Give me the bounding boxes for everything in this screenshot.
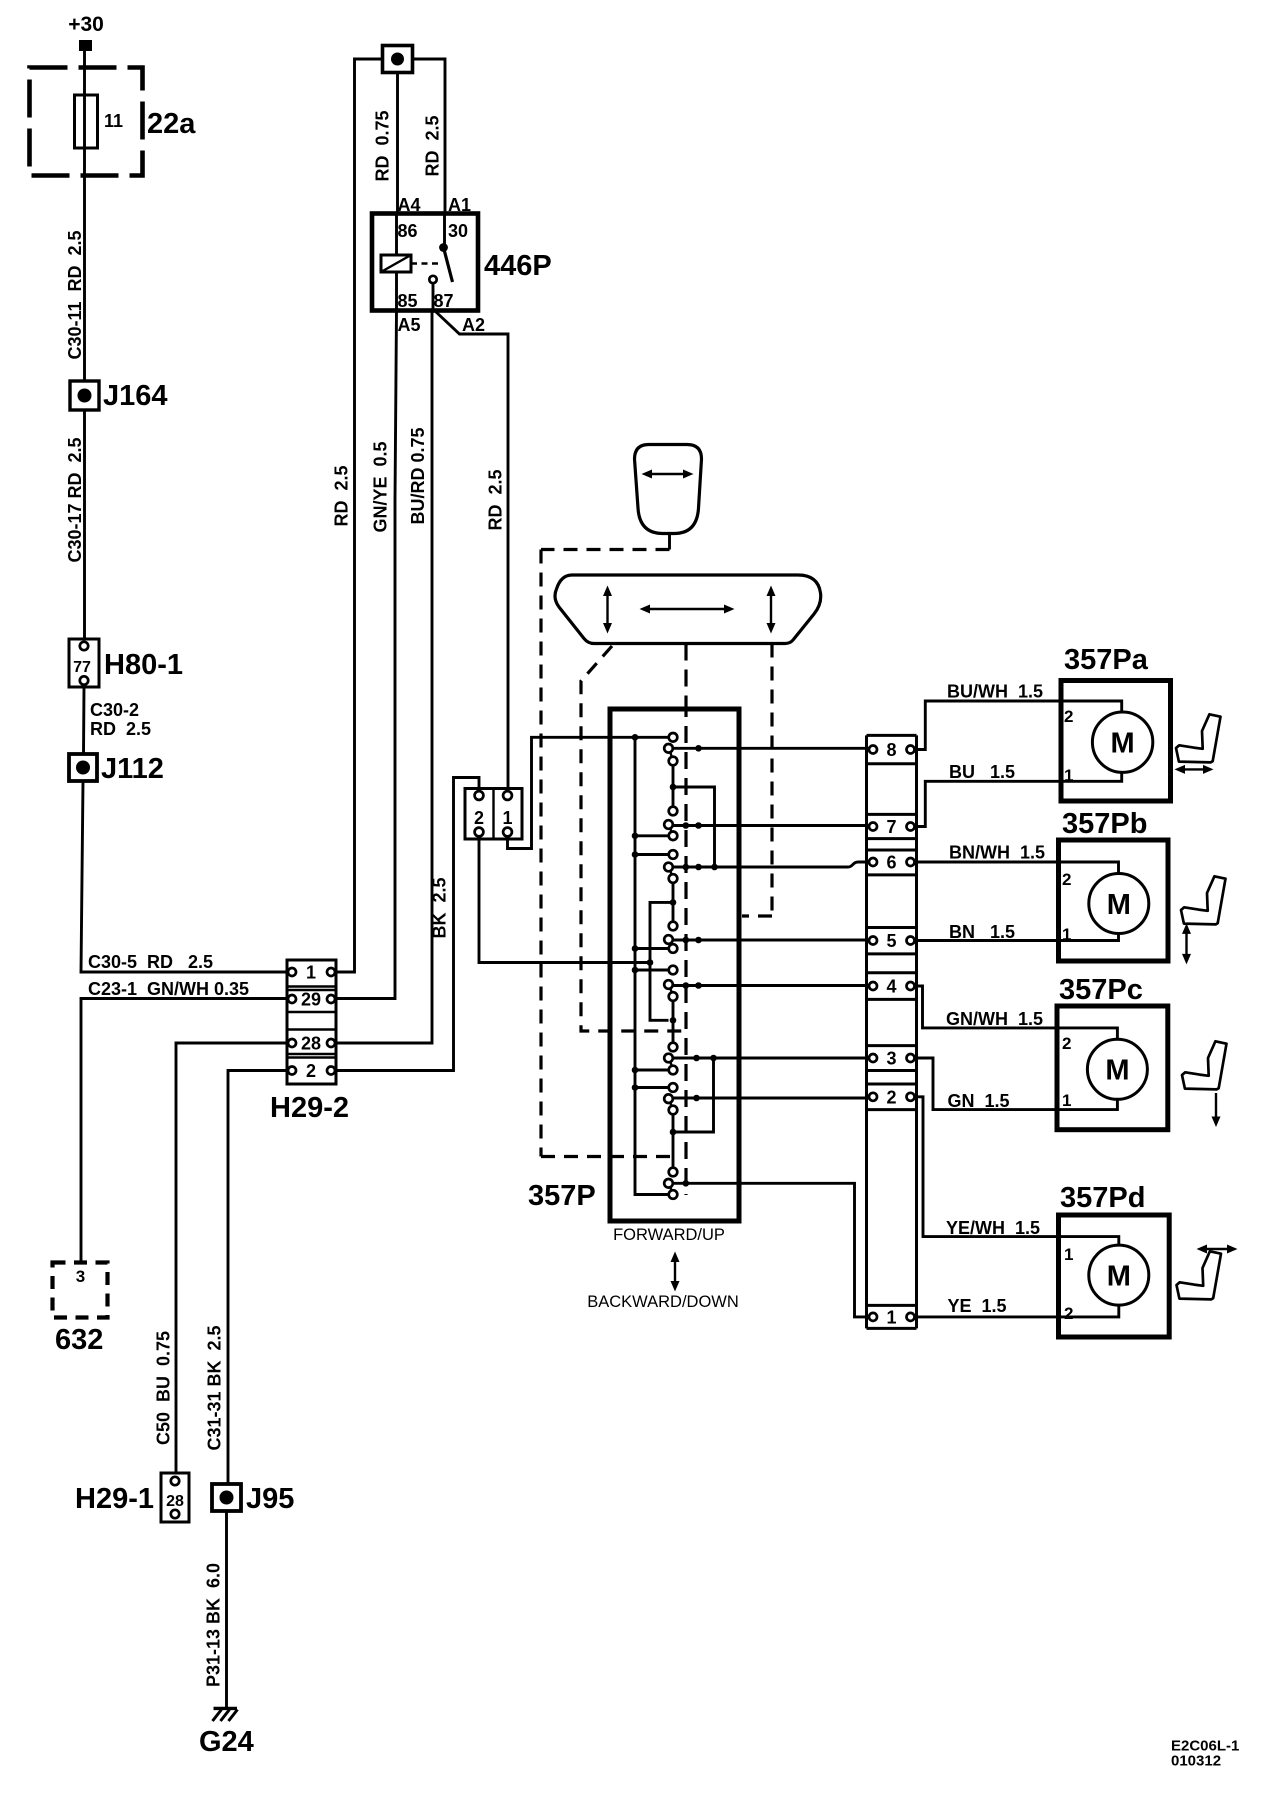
wire J164 to H80-1 — [83, 410, 86, 639]
svg-text:M: M — [1105, 1055, 1129, 1087]
relay coil — [395, 214, 398, 311]
svg-text:BN/WH 1.5: BN/WH 1.5 — [949, 843, 1045, 863]
wire row 2 to connector pin 2 — [673, 1097, 869, 1100]
svg-text:RD 2.5: RD 2.5 — [423, 115, 443, 176]
svg-text:RD 2.5: RD 2.5 — [332, 465, 352, 526]
svg-text:BU/WH 1.5: BU/WH 1.5 — [947, 682, 1043, 702]
svg-text:J164: J164 — [103, 380, 168, 412]
svg-text:RD 0.75: RD 0.75 — [373, 110, 393, 181]
connector H29-1 — [161, 1473, 189, 1522]
svg-text:2: 2 — [474, 808, 484, 828]
seat Pd horizontal double arrow — [1203, 1248, 1231, 1250]
wire pin 1 to motor 357Pd pin 2 — [915, 1305, 1119, 1317]
connector J95 — [212, 1484, 241, 1511]
svg-text:357P: 357P — [528, 1180, 596, 1212]
connector strip cell lines — [867, 735, 917, 1328]
svg-text:1: 1 — [886, 1307, 896, 1327]
dashed outline top from knob — [541, 548, 670, 551]
svg-text:5: 5 — [886, 931, 896, 951]
forward/backward double arrow — [674, 1258, 676, 1285]
motor 357Pc body — [1057, 1006, 1168, 1130]
svg-text:GN/WH 1.5: GN/WH 1.5 — [946, 1009, 1043, 1029]
connector pin 1 — [869, 1313, 877, 1321]
svg-text:C31-31 BK 2.5: C31-31 BK 2.5 — [205, 1325, 225, 1450]
svg-text:BU/RD 0.75: BU/RD 0.75 — [408, 427, 428, 524]
lever right up-down arrow — [770, 592, 772, 627]
svg-text:H29-2: H29-2 — [270, 1092, 349, 1124]
svg-text:GN 1.5: GN 1.5 — [948, 1091, 1010, 1111]
svg-text:4: 4 — [886, 977, 896, 997]
wire junction box left then down to H29-2 pin 1 right — [336, 59, 383, 972]
switch knob shape — [635, 445, 702, 534]
svg-text:C30-17 RD 2.5: C30-17 RD 2.5 — [65, 437, 85, 562]
connector pin 4 — [869, 982, 877, 990]
svg-text:7: 7 — [886, 817, 896, 837]
connector J164 — [70, 381, 99, 410]
svg-text:8: 8 — [886, 740, 896, 760]
svg-text:FORWARD/UP: FORWARD/UP — [613, 1226, 725, 1244]
svg-text:BU 1.5: BU 1.5 — [949, 762, 1015, 782]
svg-text:C30-11 RD 2.5: C30-11 RD 2.5 — [65, 230, 85, 359]
seat icon for 357Pc — [1182, 1041, 1227, 1089]
svg-text:446P: 446P — [484, 250, 552, 282]
connector H29-2 body — [287, 960, 336, 1084]
wire relay pin 87 down (BU/RD) to H29-2 pin 28 right — [336, 283, 433, 1043]
connector strip rails — [867, 735, 917, 1328]
rail stubs to fixed contacts — [635, 836, 669, 1088]
svg-text:M: M — [1107, 889, 1131, 921]
wire J95 down to ground — [225, 1511, 228, 1708]
svg-text:357Pb: 357Pb — [1062, 808, 1147, 840]
fuse 11 element — [75, 95, 98, 148]
svg-text:1: 1 — [1062, 925, 1071, 944]
svg-text:+30: +30 — [68, 13, 104, 36]
svg-text:1: 1 — [306, 963, 316, 983]
contact group B (row 7) — [669, 807, 678, 816]
svg-text:1: 1 — [502, 808, 512, 828]
wire H80-1 to J112 — [82, 687, 85, 754]
lever left up-down arrow — [606, 592, 608, 627]
svg-text:2: 2 — [886, 1087, 896, 1107]
wire pin 8 to motor 357Pa pin 2 — [915, 701, 1122, 750]
jumper G3 to H1 and row 3 link — [673, 1058, 714, 1168]
svg-text:A2: A2 — [462, 315, 485, 335]
connector pin 2 — [869, 1093, 877, 1101]
svg-text:BACKWARD/DOWN: BACKWARD/DOWN — [587, 1293, 739, 1311]
svg-text:1: 1 — [1062, 1091, 1071, 1110]
svg-text:P31-13 BK 6.0: P31-13 BK 6.0 — [204, 1563, 224, 1687]
wire junction box right then down to relay pin 30 — [413, 59, 446, 214]
svg-text:357Pd: 357Pd — [1060, 1182, 1145, 1214]
lever left-right arrow — [646, 608, 728, 610]
svg-text:2: 2 — [1064, 1304, 1073, 1323]
relay contact arm — [444, 248, 453, 283]
relay 446P body — [372, 214, 478, 311]
dashed outline bottom edge — [541, 1155, 672, 1158]
seat Pb vertical double arrow — [1185, 930, 1187, 958]
jumper A3 to B1 and to row6 — [673, 765, 715, 867]
ground G24 symbol — [214, 1707, 238, 1710]
wire J112 down to corner then right to H29-2 pin 1 — [81, 781, 287, 972]
wire row 4 to connector pin 4 — [673, 984, 869, 987]
connector 2|1 body — [465, 789, 522, 840]
seat icon for 357Pb — [1181, 876, 1226, 924]
wire pin 5 to motor 357Pb pin 1 — [915, 934, 1119, 941]
motor 357Pd body — [1059, 1215, 1170, 1337]
wire from +30 into fuse box 22a and down through fuse — [83, 51, 86, 381]
connector H80-1 — [69, 639, 99, 687]
svg-text:M: M — [1111, 728, 1135, 760]
jumper C3 to D1 — [672, 883, 675, 922]
contact group C (row 6) — [669, 850, 678, 859]
wire 2|1 pin 2 bottom to 357P lower-left feed — [479, 836, 650, 963]
H29-2 pin 1 circles — [288, 968, 296, 976]
seat icon for 357Pd — [1177, 1251, 1222, 1299]
svg-text:J95: J95 — [246, 1483, 294, 1515]
contact group G (row 2) — [669, 1083, 678, 1092]
dashed link lever bottom-left diagonal — [581, 646, 686, 1031]
relay contact: pin 30 fixed point — [443, 214, 446, 245]
seat Pa horizontal double arrow — [1181, 768, 1207, 770]
pin circle H80-1 top — [80, 642, 88, 650]
wire H29-2 pin 2 left to C31-31 wire down to J95 — [228, 1071, 287, 1485]
contact group H (row 1) — [669, 1168, 678, 1177]
contact group D (row 5) — [669, 922, 678, 931]
svg-text:A1: A1 — [448, 195, 471, 215]
connector pin 6 — [869, 858, 877, 866]
connector 2|1 circles — [475, 791, 484, 800]
wire pin 3 to motor 357Pc pin 1 — [915, 1058, 1118, 1110]
connector 632 (dashed box) — [53, 1263, 108, 1318]
wire pin 7 to motor 357Pa pin 1 — [915, 772, 1122, 826]
seat icon for 357Pa — [1176, 714, 1221, 762]
wire relay pin 87/A2 diagonal to RD 2.5 drop to connector pin 1 — [435, 311, 508, 791]
svg-text:357Pc: 357Pc — [1059, 974, 1143, 1006]
dashed link lever to switch (center) — [684, 644, 687, 701]
switch 357P body — [610, 709, 739, 1221]
wire row 1 down to connector pin 1 — [673, 1183, 869, 1317]
knob left-right arrow — [648, 473, 687, 475]
svg-text:357Pa: 357Pa — [1064, 644, 1149, 676]
svg-text:29: 29 — [301, 990, 321, 1010]
svg-text:1: 1 — [1064, 1245, 1073, 1264]
svg-text:87: 87 — [434, 291, 454, 311]
svg-text:28: 28 — [166, 1493, 184, 1510]
wire pin 4 to motor 357Pc pin 2 — [915, 986, 1118, 1039]
wire row 7 to connector pin 7 — [673, 824, 869, 827]
svg-text:BK 2.5: BK 2.5 — [430, 877, 450, 938]
svg-text:85: 85 — [398, 291, 418, 311]
fuse box 22a (dashed housing) — [30, 68, 143, 176]
svg-text:C50 BU 0.75: C50 BU 0.75 — [154, 1331, 174, 1445]
svg-text:J112: J112 — [101, 753, 164, 785]
svg-text:30: 30 — [448, 221, 468, 241]
svg-text:28: 28 — [301, 1034, 321, 1054]
wire 2|1 pin 1 bottom to 357P top-left feed — [508, 737, 671, 848]
svg-text:C30-2: C30-2 — [90, 700, 139, 720]
wire H29-2 pin 28 left to C50 wire down to H29-1 — [176, 1043, 287, 1473]
svg-text:77: 77 — [73, 659, 91, 676]
dashed link lever right side down and into box — [742, 644, 772, 917]
knob stem — [668, 534, 671, 550]
wire relay pin 85/A5 down (GN/YE) to H29-2 pin 29 right — [336, 311, 397, 999]
relay coil to contact dashed link — [411, 262, 438, 264]
H29-2 pin 2 circles — [288, 1067, 296, 1075]
wire 2|1 pin 2 up-left then down (BK 2.5) to H29-2 pin 2 right — [336, 778, 479, 1071]
svg-text:C30-5 RD 2.5: C30-5 RD 2.5 — [88, 952, 213, 972]
svg-text:6: 6 — [886, 853, 896, 873]
contact group A (row 8) — [669, 733, 678, 742]
motor 357Pb body — [1059, 840, 1169, 961]
dashed outline left edge — [539, 550, 542, 1157]
H29-2 cell separators — [287, 987, 336, 1058]
connector pin 3 — [869, 1054, 877, 1062]
svg-text:11: 11 — [104, 111, 123, 131]
svg-text:BN 1.5: BN 1.5 — [949, 922, 1015, 942]
wire pin 6 to motor 357Pb pin 2 — [915, 862, 1119, 874]
svg-text:2: 2 — [1062, 870, 1071, 889]
svg-text:A4: A4 — [398, 195, 421, 215]
contact group F (row 3) — [669, 1043, 678, 1052]
motor 357Pa body — [1061, 681, 1171, 802]
contact group E (row 4) — [669, 966, 678, 975]
svg-text:2: 2 — [306, 1061, 316, 1081]
H29-2 pin 28 circles — [288, 1039, 296, 1047]
svg-text:3: 3 — [886, 1049, 896, 1069]
svg-text:632: 632 — [55, 1324, 103, 1356]
wire row 5 to connector pin 5 — [673, 939, 869, 942]
svg-text:86: 86 — [398, 221, 418, 241]
wire junction box down to relay pin 86 — [396, 73, 399, 214]
seat Pc down arrow — [1215, 1093, 1217, 1120]
svg-text:YE 1.5: YE 1.5 — [948, 1296, 1007, 1316]
wire pin 2 to motor 357Pd pin 1 — [915, 1097, 1119, 1245]
switch lever shape — [555, 575, 821, 644]
wire row 6 to connector pin 6 (with hop) — [673, 862, 869, 867]
node +30 terminal square — [79, 40, 92, 51]
svg-text:22a: 22a — [147, 108, 196, 140]
dashed center line inside 357P — [684, 700, 687, 1195]
svg-text:2: 2 — [1064, 707, 1073, 726]
connector pin 5 — [869, 937, 877, 945]
wire row 3 to connector pin 3 — [673, 1057, 869, 1060]
connector pin 8 — [869, 746, 877, 754]
357P internal second rail — [650, 902, 673, 1020]
jumper E3 to F1 — [672, 1001, 675, 1043]
svg-text:2: 2 — [1062, 1034, 1071, 1053]
svg-text:A5: A5 — [398, 315, 421, 335]
relay contact: pin 87 circle — [429, 276, 436, 283]
junction box above relay — [383, 46, 413, 73]
wire H29-2 pin 29 left to corner then down to 632 — [81, 999, 287, 1263]
svg-text:3: 3 — [76, 1267, 85, 1286]
pin circle H80-1 bottom — [80, 676, 88, 684]
svg-text:GN/YE 0.5: GN/YE 0.5 — [371, 441, 391, 532]
svg-text:RD 2.5: RD 2.5 — [90, 719, 151, 739]
wire row 8 to connector pin 8 — [673, 747, 869, 750]
357P internal left rail — [635, 737, 669, 1194]
H29-2 pin 29 circles — [288, 995, 296, 1003]
connector J112 — [69, 754, 97, 781]
svg-text:YE/WH 1.5: YE/WH 1.5 — [946, 1218, 1040, 1238]
svg-text:C23-1 GN/WH 0.35: C23-1 GN/WH 0.35 — [88, 979, 249, 999]
svg-text:H29-1: H29-1 — [75, 1483, 154, 1515]
svg-text:G24: G24 — [199, 1726, 254, 1758]
rail junction dots — [632, 734, 639, 741]
svg-text:010312: 010312 — [1171, 1753, 1221, 1770]
svg-text:RD 2.5: RD 2.5 — [486, 469, 506, 530]
svg-text:M: M — [1107, 1260, 1131, 1292]
connector pin 7 — [869, 823, 877, 831]
svg-text:H80-1: H80-1 — [104, 649, 183, 681]
svg-text:1: 1 — [1064, 766, 1073, 785]
